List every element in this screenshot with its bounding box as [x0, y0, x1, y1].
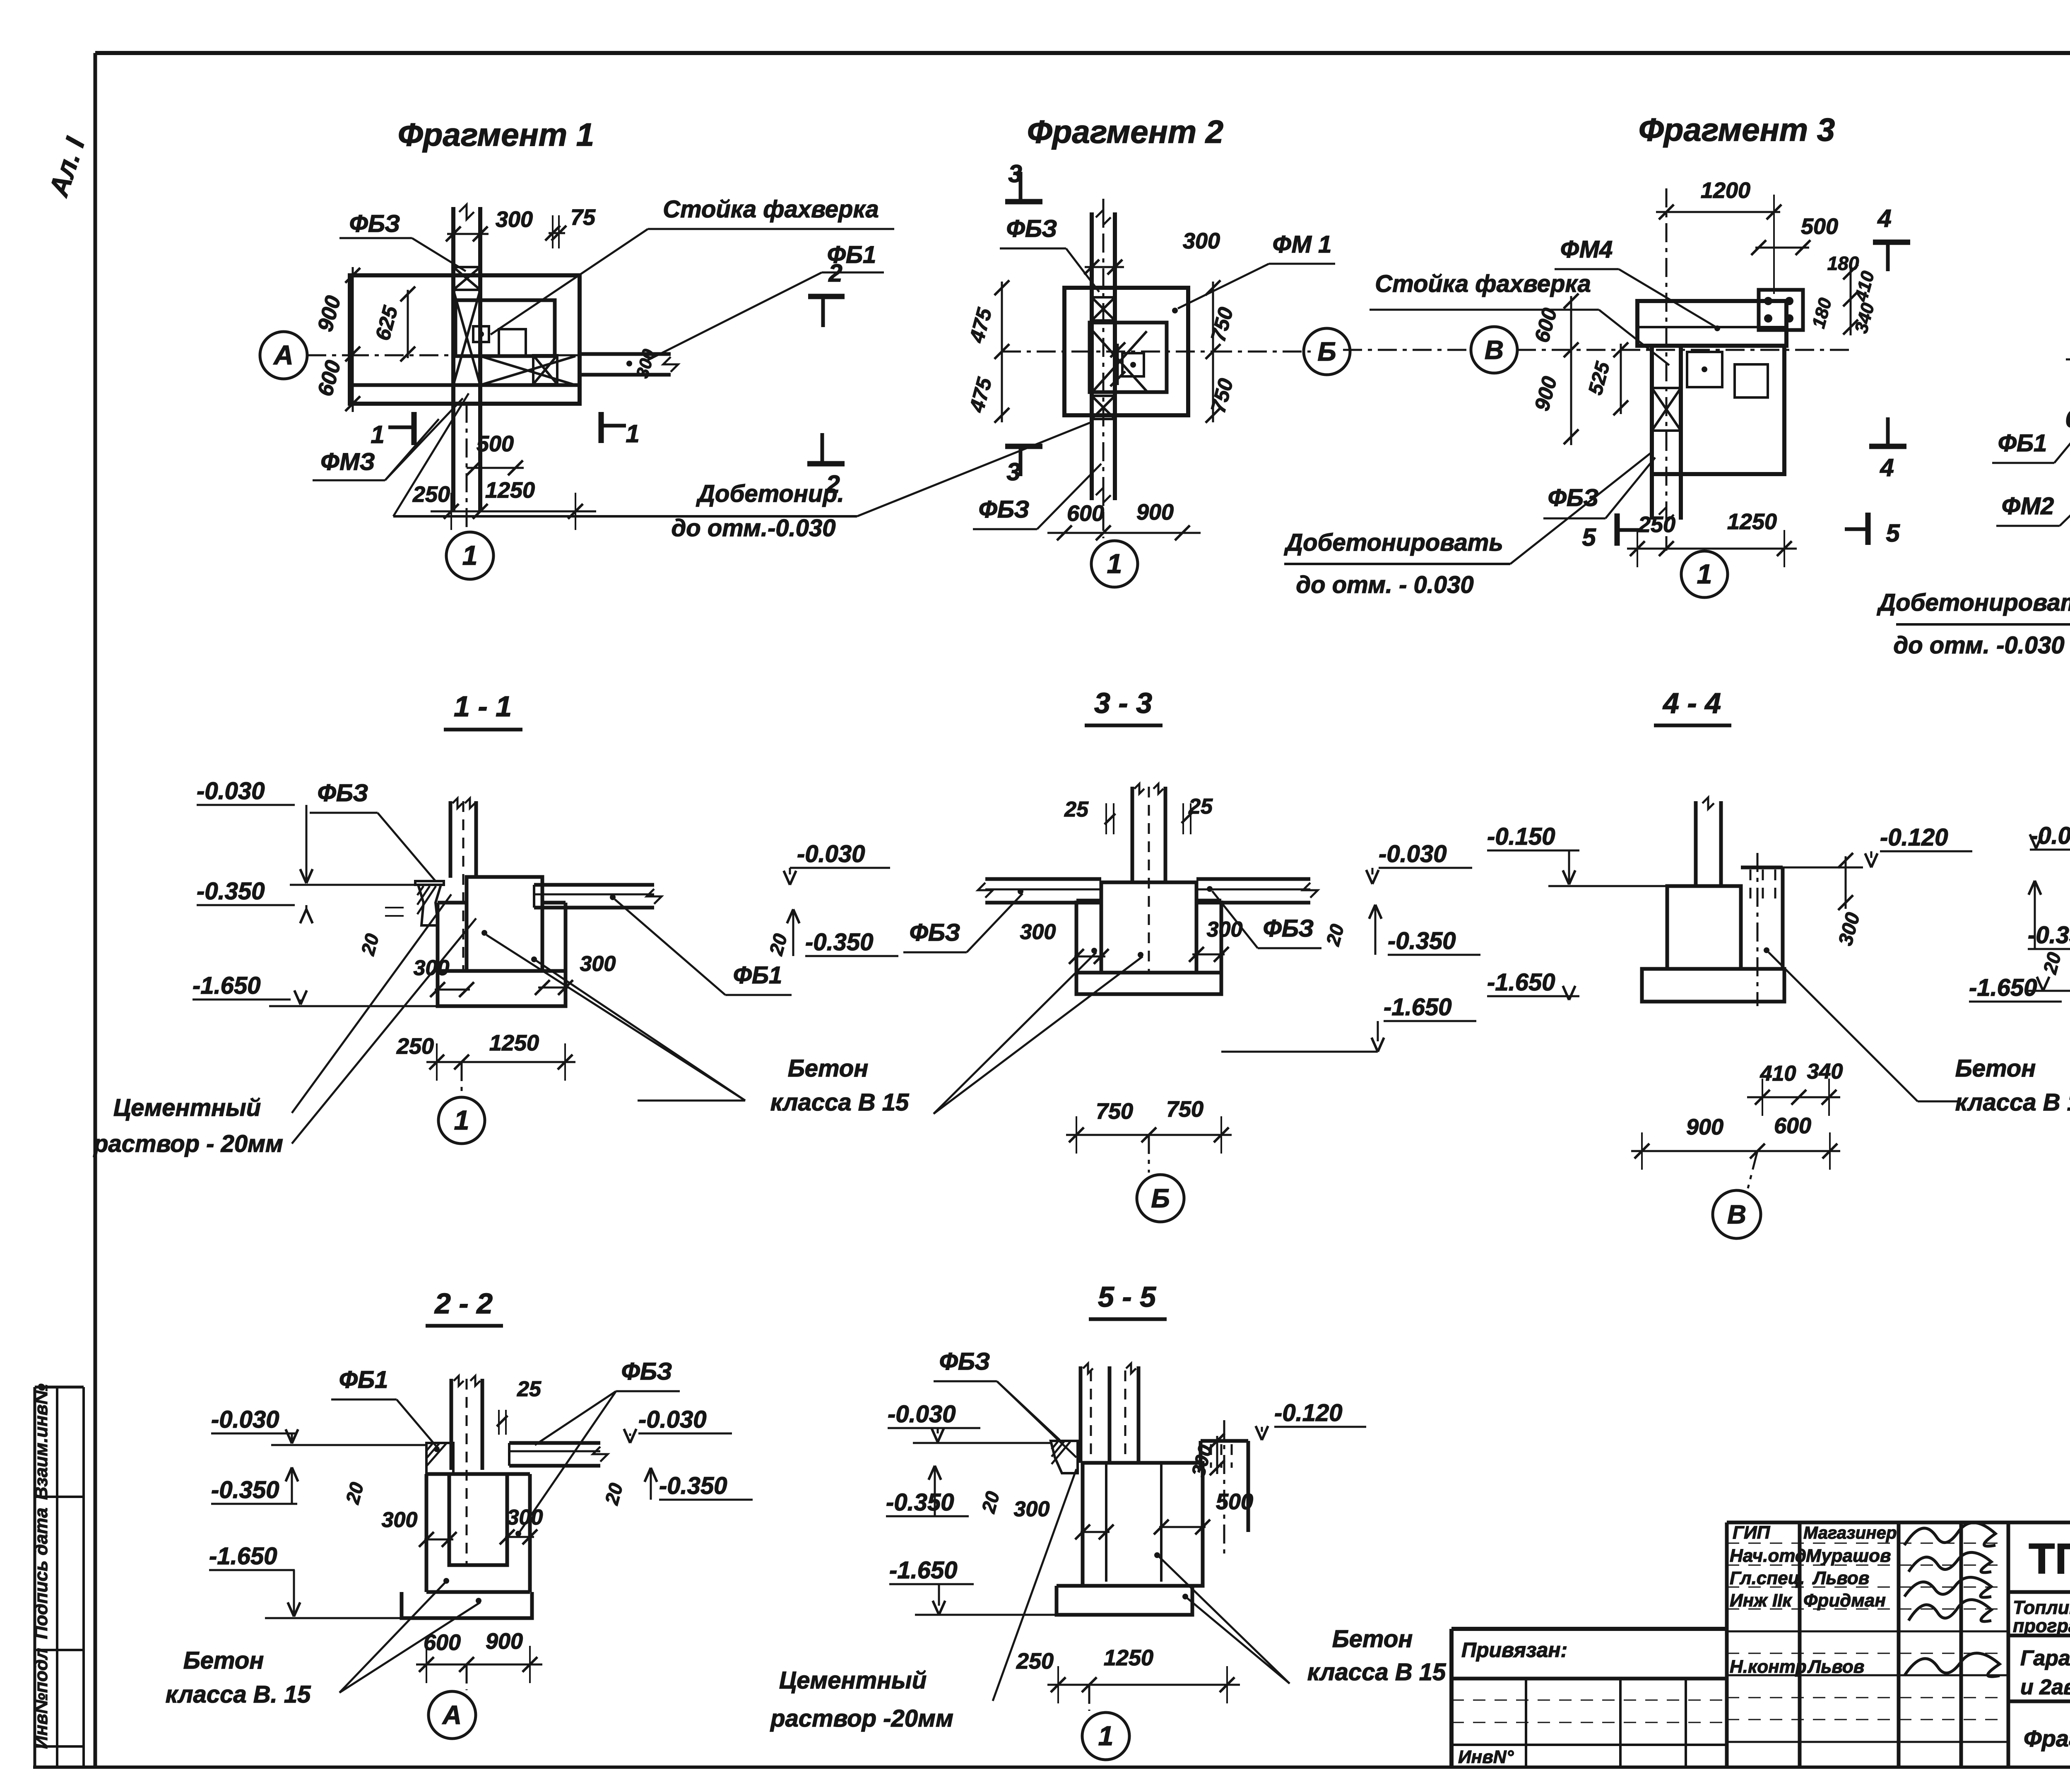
svg-text:Добетонировать: Добетонировать — [1876, 589, 2070, 616]
svg-text:В: В — [1727, 1199, 1746, 1229]
svg-text:1: 1 — [1098, 1720, 1114, 1751]
svg-text:1: 1 — [1107, 548, 1122, 579]
svg-text:250: 250 — [412, 482, 450, 507]
svg-text:300: 300 — [1020, 920, 1056, 944]
svg-text:900: 900 — [1136, 500, 1174, 525]
svg-text:программой 15тыс.т условного т: программой 15тыс.т условного топлива — [2013, 1615, 2070, 1636]
svg-text:ФМ2: ФМ2 — [2002, 493, 2054, 520]
svg-text:Б: Б — [1317, 337, 1336, 366]
svg-text:-0.030: -0.030 — [211, 1406, 279, 1433]
svg-text:-0.350: -0.350 — [197, 878, 265, 905]
svg-text:340: 340 — [1807, 1060, 1843, 1084]
svg-text:класса В. 15: класса В. 15 — [166, 1681, 311, 1708]
svg-text:Бетон: Бетон — [183, 1647, 264, 1674]
svg-text:6: 6 — [2065, 405, 2070, 433]
svg-text:180: 180 — [1827, 253, 1859, 274]
svg-text:Цементный: Цементный — [779, 1667, 927, 1694]
svg-text:Фрагмент 1: Фрагмент 1 — [398, 116, 594, 153]
svg-text:до отм. - 0.030: до отм. - 0.030 — [1296, 571, 1473, 598]
svg-text:4: 4 — [1880, 454, 1894, 482]
svg-text:300: 300 — [496, 207, 533, 232]
svg-text:до отм.-0.030: до отм.-0.030 — [671, 515, 835, 542]
svg-text:Гл.спец.: Гл.спец. — [1730, 1568, 1805, 1588]
svg-text:1250: 1250 — [489, 1031, 539, 1055]
svg-text:Взаим.инв№: Взаим.инв№ — [31, 1384, 51, 1500]
svg-text:Львов: Львов — [1812, 1568, 1869, 1588]
svg-text:Привязан:: Привязан: — [1461, 1638, 1567, 1662]
svg-text:600: 600 — [424, 1630, 461, 1655]
svg-text:Н.контр: Н.контр — [1730, 1657, 1807, 1677]
svg-text:1 - 1: 1 - 1 — [454, 690, 512, 723]
svg-text:ФМ 1: ФМ 1 — [1273, 231, 1332, 258]
svg-text:Фрагмент 2: Фрагмент 2 — [1027, 113, 1223, 150]
svg-text:Фрагмент 3: Фрагмент 3 — [1639, 111, 1835, 148]
svg-text:-0.030: -0.030 — [797, 841, 865, 867]
svg-text:ФБЗ: ФБЗ — [939, 1348, 990, 1375]
svg-text:1200: 1200 — [1701, 178, 1750, 203]
svg-text:раствор -20мм: раствор -20мм — [770, 1705, 953, 1732]
svg-text:500: 500 — [1801, 214, 1838, 239]
svg-text:-0.030: -0.030 — [888, 1401, 956, 1428]
svg-text:1: 1 — [1697, 559, 1712, 589]
svg-text:-0.150: -0.150 — [1487, 823, 1555, 850]
svg-text:5: 5 — [1886, 519, 1900, 547]
svg-text:4 - 4: 4 - 4 — [1662, 687, 1721, 719]
svg-text:А: А — [273, 340, 294, 370]
svg-text:Стойка фахверка: Стойка фахверка — [1375, 270, 1591, 297]
svg-text:В: В — [1485, 335, 1504, 365]
svg-text:750: 750 — [1096, 1099, 1133, 1124]
svg-text:500: 500 — [477, 431, 514, 456]
svg-text:250: 250 — [1638, 512, 1675, 537]
svg-text:-1.650: -1.650 — [1384, 994, 1451, 1021]
svg-text:75: 75 — [570, 205, 596, 230]
svg-text:и 2автопогрузчика: и 2автопогрузчика — [2020, 1675, 2070, 1699]
svg-text:-0.120: -0.120 — [1880, 824, 1948, 851]
svg-text:Фрагменты 1÷4: Фрагменты 1÷4 — [2024, 1725, 2070, 1751]
svg-text:-1.650: -1.650 — [1969, 974, 2037, 1001]
svg-text:1: 1 — [462, 540, 478, 571]
svg-text:500: 500 — [1216, 1489, 1253, 1514]
svg-text:750: 750 — [1166, 1097, 1203, 1122]
svg-text:300: 300 — [580, 952, 616, 976]
svg-text:300: 300 — [1183, 229, 1220, 253]
svg-text:1250: 1250 — [485, 478, 535, 503]
svg-text:Б: Б — [1151, 1183, 1170, 1213]
svg-text:5: 5 — [1582, 523, 1596, 551]
svg-text:ТП: ТП — [2029, 1535, 2070, 1583]
svg-text:-0.030: -0.030 — [1379, 841, 1447, 867]
svg-text:-0.030: -0.030 — [638, 1406, 706, 1433]
svg-text:900: 900 — [486, 1629, 523, 1654]
svg-text:1: 1 — [371, 421, 384, 448]
svg-text:1250: 1250 — [1104, 1645, 1153, 1670]
svg-text:300: 300 — [1014, 1497, 1050, 1521]
svg-text:Добетонировать: Добетонировать — [1283, 529, 1503, 556]
svg-text:Цементный: Цементный — [113, 1094, 261, 1121]
svg-text:ФБЗ: ФБЗ — [1006, 215, 1057, 242]
svg-text:класса В 15: класса В 15 — [770, 1089, 909, 1116]
svg-text:раствор - 20мм: раствор - 20мм — [93, 1130, 283, 1157]
svg-text:1250: 1250 — [1727, 509, 1777, 534]
svg-text:ФБЗ: ФБЗ — [1548, 484, 1599, 511]
svg-text:ФБЗ: ФБЗ — [621, 1358, 672, 1385]
svg-text:-0.350: -0.350 — [886, 1489, 954, 1516]
svg-text:ФБ1: ФБ1 — [1998, 430, 2047, 457]
svg-text:-0.350: -0.350 — [1388, 927, 1456, 954]
svg-text:-1.650: -1.650 — [193, 972, 260, 999]
svg-text:300: 300 — [382, 1508, 418, 1532]
svg-text:-0.350: -0.350 — [211, 1476, 279, 1503]
svg-text:-0.350: -0.350 — [805, 929, 873, 956]
svg-text:-0.030: -0.030 — [197, 778, 265, 804]
svg-text:-1.650: -1.650 — [209, 1543, 277, 1570]
svg-text:-0.120: -0.120 — [1274, 1399, 1342, 1426]
svg-text:Гараж на 2автомашины: Гараж на 2автомашины — [2020, 1646, 2070, 1670]
svg-text:класса В 15: класса В 15 — [1307, 1659, 1446, 1686]
svg-text:Стойка фахверка: Стойка фахверка — [663, 196, 879, 223]
svg-text:ФМ4: ФМ4 — [1560, 236, 1613, 263]
svg-text:5 - 5: 5 - 5 — [1098, 1281, 1156, 1313]
svg-text:250: 250 — [396, 1034, 434, 1059]
svg-text:2 - 2: 2 - 2 — [434, 1287, 493, 1320]
svg-text:Львов: Львов — [1807, 1657, 1864, 1677]
svg-text:А: А — [442, 1700, 462, 1730]
svg-text:-1.650: -1.650 — [1487, 969, 1555, 996]
svg-text:25: 25 — [517, 1377, 542, 1401]
svg-text:ФБЗ: ФБЗ — [349, 210, 400, 237]
svg-text:600: 600 — [1067, 501, 1104, 526]
svg-text:класса В 15: класса В 15 — [1955, 1089, 2070, 1116]
svg-text:до отм. -0.030: до отм. -0.030 — [1893, 632, 2064, 659]
svg-text:Нач.отд: Нач.отд — [1730, 1546, 1806, 1566]
svg-text:1: 1 — [454, 1105, 469, 1135]
svg-text:Магазинер: Магазинер — [1803, 1523, 1897, 1542]
svg-text:Бетон: Бетон — [788, 1055, 869, 1082]
svg-text:25: 25 — [1188, 795, 1213, 819]
svg-text:Добетонир.: Добетонир. — [696, 480, 844, 507]
svg-text:Инв№подл: Инв№подл — [31, 1648, 51, 1749]
svg-text:300: 300 — [414, 956, 450, 980]
svg-text:Инж IIк: Инж IIк — [1730, 1590, 1793, 1611]
svg-text:Бетон: Бетон — [1332, 1626, 1413, 1652]
svg-text:Фридман: Фридман — [1803, 1590, 1886, 1611]
svg-text:ФБЗ: ФБЗ — [979, 496, 1030, 523]
svg-text:ФБЗ: ФБЗ — [318, 780, 368, 807]
svg-text:4: 4 — [1877, 205, 1891, 232]
svg-text:3 - 3: 3 - 3 — [1094, 687, 1152, 719]
svg-text:1: 1 — [626, 420, 639, 448]
svg-text:ИнвN°: ИнвN° — [1458, 1747, 1514, 1767]
svg-text:600: 600 — [1774, 1113, 1811, 1138]
svg-text:2: 2 — [828, 259, 842, 287]
svg-text:900: 900 — [1686, 1115, 1723, 1139]
svg-text:ФБ1: ФБ1 — [339, 1366, 388, 1393]
svg-text:Бетон: Бетон — [1955, 1055, 2036, 1082]
svg-text:ФБЗ: ФБЗ — [910, 919, 960, 946]
svg-text:ФМЗ: ФМЗ — [320, 448, 375, 475]
svg-text:ФБ1: ФБ1 — [733, 962, 782, 989]
svg-text:Мурашов: Мурашов — [1806, 1546, 1891, 1566]
svg-text:-0.350: -0.350 — [659, 1472, 727, 1499]
svg-text:ФБЗ: ФБЗ — [1263, 915, 1314, 942]
svg-text:250: 250 — [1016, 1649, 1054, 1674]
svg-text:3: 3 — [1006, 458, 1020, 486]
svg-text:25: 25 — [1064, 797, 1089, 821]
svg-text:410: 410 — [1760, 1062, 1796, 1086]
svg-text:Подпись дата: Подпись дата — [31, 1508, 51, 1639]
svg-text:-1.650: -1.650 — [889, 1557, 957, 1584]
svg-text:ГИП: ГИП — [1733, 1522, 1771, 1543]
